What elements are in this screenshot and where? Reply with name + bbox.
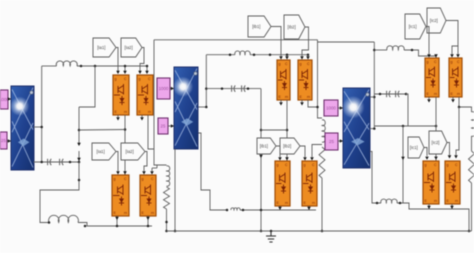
arrow Q1 E [116,117,120,120]
wire top S3 b [404,50,436,56]
wire stub Q9 C [435,56,437,58]
wire load mid S3 [471,136,473,151]
constant temperature 25 (PV1) [0,132,7,149]
constant temperature 25 (PV2) [158,118,168,134]
junction top S2 [269,53,272,56]
arrow into Q3 C [123,171,127,174]
svg-text:g: g [279,62,281,66]
wire S1 output rail [154,40,167,165]
junction [260,209,263,212]
arrow into Q4 C [150,171,154,174]
junction [146,65,149,68]
svg-text:g: g [115,77,117,81]
arrow on S1 rail [77,143,81,146]
svg-text:m: m [307,95,310,99]
IGBT/Diode Q7 (S2 lower-left) [275,161,290,206]
arrow Q10 E [451,99,455,102]
junction [376,202,379,205]
junction S3 phase mid [435,125,438,128]
wire Q4 C jog [152,167,157,169]
svg-text:[Ic2]: [Ic2] [432,140,440,145]
constant irradiance 1000 (PV3) [324,100,338,116]
junction + S2 [205,106,208,109]
junction [286,53,289,56]
wire load S3 to bus [471,183,473,231]
wire pink2 to PV1 [7,140,11,142]
inductor load S2 [322,120,325,142]
junction [399,202,402,205]
from tag [Ib1] [248,16,271,37]
wire stub Q2 C [146,66,148,71]
from tag [Ic2(1)] [429,131,447,154]
wire tag to Q8 g [300,146,305,157]
svg-text:25: 25 [1,138,6,143]
arrow into PV2 T [171,124,174,128]
capacitor C2b [242,85,246,91]
svg-text:C: C [434,163,437,167]
svg-text:m: m [312,201,315,205]
junction [229,53,232,56]
junction S3 mid [402,125,405,128]
svg-text:C: C [312,163,315,167]
wire stub Q1 C [124,66,126,71]
inductor L boost S2 [235,51,250,55]
inductor L1 boost S1 [56,61,77,66]
wire Q8 C branch [312,145,322,158]
wire tag to Q12 g [447,143,450,156]
wire load S3 top [467,107,472,112]
svg-text:m: m [457,92,460,96]
svg-text:[Ib2]: [Ib2] [288,25,296,30]
wire Q4 E down [147,216,149,226]
wire tag to Q4 g [144,152,147,172]
wire Q3 E down [116,216,118,226]
svg-text:g: g [139,77,141,81]
junction [84,225,87,228]
junction S3 emitter bus on main bus [468,230,471,233]
svg-text:C: C [124,77,127,81]
capacitor C3a [387,91,391,97]
svg-text:1000: 1000 [159,86,169,91]
wire Q6 E to load rail [308,100,318,107]
wire Q12 E [451,204,453,209]
arrow into Q5 g [279,56,283,59]
arrow Q2 E [140,117,144,120]
wire Q1 E stub [117,115,119,117]
junction [373,49,376,52]
junction [379,93,382,96]
arrow into Q12 g [448,155,452,158]
svg-text:g: g [451,60,453,64]
wire PV3 m stub [370,96,374,98]
junction [116,225,119,228]
capacitor C1a S1 [48,159,52,165]
IGBT/Diode Q6 (S2 upper-right) [298,60,312,100]
wire stub Q6 C [307,55,309,56]
junction PV2 drop on bus [174,230,177,233]
arrow into Q2 g [138,71,142,74]
wire Q1 emitter to Q3 collector [124,115,126,175]
wire tag to Q3 g [116,152,118,172]
constant irradiance 1000 (PV2) [157,78,170,99]
wire pink to PV2 T [168,125,174,127]
wire PV2 + stub [199,106,207,108]
svg-text:[Ic1]: [Ic1] [410,145,418,150]
svg-text:C: C [307,62,310,66]
svg-text:m: m [148,110,151,114]
IGBT/Diode Q1 (S1 upper-left) [113,75,129,115]
PV array block PV1 [10,86,34,170]
wire load S2 to bus [321,178,323,231]
svg-text:C: C [285,163,288,167]
arrow into Q12 C [454,155,458,158]
inductor load S3 [472,112,474,137]
arrow Q4 E [146,217,150,220]
arrow into Q9 g [427,54,431,57]
wire S1 mid rail lower part [78,151,80,162]
svg-text:m: m [434,92,437,96]
wire Q7 E [279,206,281,210]
wire S2 load rail [318,40,323,118]
wire pink to PV3 Ir [338,107,343,109]
wire S2 mid rail [260,89,262,210]
wire PV2 ground drop [174,149,176,231]
svg-text:1000: 1000 [326,106,336,111]
arrow Q3 E [115,217,119,220]
junction [165,221,168,224]
from tag [Ia1(1)] [92,143,116,160]
junction S2 tap [260,129,263,132]
wire series string A [154,39,318,41]
arrow Q11 E [427,206,431,209]
junction top S1 [94,65,97,68]
svg-text:g: g [114,177,116,181]
junction S2 phase mid [286,129,289,132]
inductor S2 bottom [231,208,240,210]
arrow Q5 E [279,102,283,105]
from tag [Ia2] [121,38,142,57]
inductor load S1 [167,166,170,186]
wire PV3 + stub [370,128,374,130]
arrow into Q8 g [303,157,307,160]
from tag [Ic2] [427,8,446,33]
junction [458,106,461,109]
arrow into PV1 Ir input [8,97,11,101]
arrow into PV3 T [340,139,343,143]
junction [405,93,408,96]
junction [69,161,72,164]
arrow into Q11 C [434,157,438,160]
wire Q12 C drop [456,107,459,155]
svg-text:m: m [151,211,154,215]
wire Q2 emitter down [148,115,154,149]
IGBT/Diode Q8 (S2 lower-right) [302,161,317,206]
svg-text:[Ib2]: [Ib2] [283,144,291,149]
wire S1 cap row [34,161,80,163]
svg-text:25: 25 [329,139,334,144]
svg-text:C: C [151,177,154,181]
junction PV1 + port [40,126,43,129]
wire load S1 to bus [166,209,168,231]
wire S1 mid rail upper [78,107,80,144]
svg-text:C: C [455,163,458,167]
arrow into Q9 C [434,54,438,57]
svg-text:[Ic2]: [Ic2] [430,18,438,23]
svg-text:[Ia2]: [Ia2] [126,149,134,154]
PV array block PV2 [173,67,198,149]
wire main bottom bus [167,230,472,232]
svg-text:g: g [142,177,144,181]
svg-text:C: C [457,60,460,64]
arrow Q12 E [450,206,454,209]
wire Q8 E [308,206,310,210]
arrow into Q8 C [310,157,314,160]
svg-text:g: g [447,163,449,167]
wire Q2 E stub [141,115,143,117]
wire tag Ic1 to Q9 g [426,27,429,55]
wire top S2 a [206,54,235,56]
junction [226,209,229,212]
svg-text:m: m [285,201,288,205]
arrow into Q10 g [450,54,454,57]
wire pink1 to PV1 [8,98,11,100]
capacitor C2a [232,85,236,91]
junction [247,87,250,90]
wire PV2 minus loop [199,133,228,210]
junction [253,53,256,56]
arrow into Q7 C [285,157,289,160]
wire tag Ia2 to Q2 gate [140,48,144,72]
wire tag to Q7 g [276,146,280,157]
wire Q10 E to load S3 [459,97,467,107]
IGBT/Diode Q12 (S3 lower-right) [445,161,460,204]
arrow into Q2 C [145,71,149,74]
arrow on S3 rail [401,157,405,160]
wire PV2 riser [205,55,207,107]
wire Q9 E to Q11 C [435,97,437,161]
wire S3 cap row [374,93,406,95]
wire S1 phase tap [79,129,125,132]
wire Q5 E to Q7 C [286,100,288,161]
svg-text:g: g [304,163,306,167]
constant temperature 25 (PV3) [325,133,338,150]
arrow into Q6 g [300,56,304,59]
junction ground [270,230,273,233]
from tag [Ib2(1)] [280,138,300,154]
arrow into Q1 g [116,71,120,74]
wire top S1 a [42,65,57,67]
svg-text:[Ia1]: [Ia1] [97,45,105,50]
junction [307,53,310,56]
wire tag Ic2 to Q10 g [446,21,458,55]
IGBT/Diode Q11 (S3 lower-left) [423,161,439,204]
junction S1 rail low [78,179,81,182]
svg-text:[Ia1]: [Ia1] [97,149,105,154]
arrow into Q3 g [116,171,120,174]
junction [411,49,414,52]
svg-text:m: m [434,199,437,203]
arrow into Q10 C [456,54,460,57]
capacitor C3b [396,91,400,97]
capacitor C1b S1 [60,159,64,165]
wire PV3 minus loop [370,151,381,203]
svg-text:m: m [285,95,288,99]
junction cap row S2 [205,87,208,90]
wire tag Ia1 to Q1 gate [116,48,118,72]
wire Q10 E stub [452,97,454,99]
svg-text:[Ia2]: [Ia2] [125,45,133,50]
IGBT/Diode Q5 (S2 upper-left) [277,60,290,100]
constant irradiance 1000 (PV1) [0,90,9,109]
wire Q6 E stub [301,100,303,102]
junction [221,87,224,90]
wire S2 cap row [206,88,261,90]
wire S2 phase tap [261,129,287,131]
IGBT/Diode Q9 (S3 upper-left) [425,58,439,97]
ground [266,231,276,242]
wire S2 riser to main bus [260,210,262,231]
svg-text:m: m [124,110,127,114]
wire stub Q10 C [457,46,459,54]
inductor L boost S3 [387,46,404,50]
arrow Q6 E [300,102,304,105]
from tag [Ia1] [93,38,116,57]
wire S3 cap to mid bus [406,94,408,126]
IGBT/Diode Q3 (S1 lower-left) [112,175,129,216]
resistor load S3 [469,151,474,183]
arrow into Q1 C [123,71,127,74]
svg-text:m: m [124,211,127,215]
wire Q5 E stub [280,100,282,102]
wire pink to PV3 T [338,140,343,142]
resistor load S1 [164,187,170,209]
IGBT/Diode Q2 (S1 upper-right) [137,75,153,115]
wire top S3 a [374,49,387,51]
arrow into Q6 C [306,56,310,59]
inductor S3 bottom [381,199,397,203]
junction PV3 m stub [373,96,376,99]
wire stub Q5 C [286,55,288,56]
wire tag Ib1 to Q5 g [271,27,281,57]
junction bus left end [165,230,168,233]
junction S1 phase mid [124,128,127,131]
from tag [Ic1] [405,14,426,39]
junction load S2 bus [321,230,324,233]
wire PV3 riser [373,42,375,129]
inductor S1 bottom [49,215,79,222]
wire tag to Q11 g [424,148,427,157]
from tag [Ib2] [284,15,305,39]
junction [242,209,245,212]
wire pink to PV2 Ir [170,88,174,90]
wire Q9 E stub [428,97,430,99]
arrow Q8 E [307,207,311,210]
junction S2 load rail [316,106,319,109]
svg-text:g: g [427,60,429,64]
junction + S3 [373,127,376,130]
resistor load S2 [319,147,325,178]
IGBT/Diode Q4 (S1 lower-right) [140,175,156,216]
svg-text:[Ib1]: [Ib1] [252,24,260,29]
wire S2 emitter bus [240,209,316,211]
svg-text:25: 25 [161,124,166,129]
wire S3 emitter bus [397,203,469,231]
arrow into PV3 Ir [340,106,343,110]
wire S1 jog down [79,66,95,107]
arrow into Q11 g [425,157,429,160]
arrow into Q5 C [285,56,289,59]
PV array block PV3 [342,88,370,168]
junction cap row left [40,161,43,164]
arrow into PV1 T input [8,139,11,143]
from tag [Ia2(1)] [121,143,145,160]
arrow on S1 rail b [77,158,81,161]
wire Q4 C branch [156,165,158,168]
IGBT/Diode Q10 (S3 upper-right) [449,58,462,97]
junction S1 phase tap [78,129,81,132]
junction [147,225,150,228]
junction [80,65,83,68]
wire top S2 b [250,54,309,56]
from tag [Ib1(1)] [257,138,276,154]
svg-text:C: C [434,60,437,64]
arrow into PV2 Ir [171,87,174,91]
wire S1 lower loop [40,162,79,223]
svg-text:C: C [148,77,151,81]
wire Q11 E [428,204,430,209]
svg-text:[Ib1]: [Ib1] [260,144,268,149]
wire series string B [318,41,375,43]
arrow into Q7 g [278,157,282,160]
svg-text:[Ic1]: [Ic1] [409,24,417,29]
svg-text:C: C [124,177,127,181]
wire tag Ib2 to Q6 g [302,27,309,56]
junction S2 riser [260,230,263,233]
arrow on S2 rail [259,155,263,158]
arrow into Q4 g [142,171,146,174]
from tag [Ic1(1)] [408,137,424,158]
arrow Q7 E [278,207,282,210]
svg-text:C: C [285,62,288,66]
svg-text:g: g [300,62,302,66]
wire S1 emitter bus [78,223,152,227]
wire S3 mid rail [402,126,404,203]
junction [78,161,81,164]
svg-text:g: g [425,163,427,167]
junction [48,221,51,224]
wire S3 mid bus [374,125,436,127]
junction [124,65,127,68]
wire PV1 plus riser [41,66,43,162]
wire top S1 b [77,65,148,67]
wire PV1 + stub [34,126,42,128]
arrow Q9 E [427,99,431,102]
svg-text:g: g [277,163,279,167]
svg-text:m: m [455,199,458,203]
wire Q4 C drop [151,168,153,171]
